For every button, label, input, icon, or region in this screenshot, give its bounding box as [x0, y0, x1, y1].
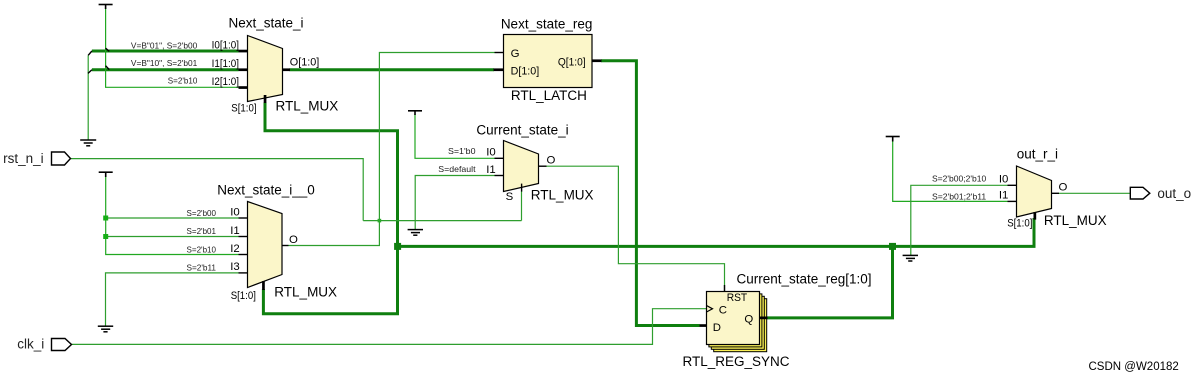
svg-text:S=1'b0: S=1'b0	[448, 146, 476, 156]
svg-text:I1[1:0]: I1[1:0]	[212, 58, 239, 70]
svg-text:I2: I2	[230, 243, 240, 255]
svg-text:Next_state_i__0: Next_state_i__0	[217, 183, 315, 198]
svg-text:D[1:0]: D[1:0]	[511, 66, 540, 78]
svg-text:V=B"10", S=2'b01: V=B"10", S=2'b01	[131, 58, 198, 68]
svg-text:O: O	[1059, 182, 1068, 194]
svg-text:clk_i: clk_i	[17, 337, 44, 352]
svg-text:I3: I3	[230, 261, 240, 273]
svg-text:S=2'b01;2'b11: S=2'b01;2'b11	[932, 192, 986, 202]
svg-text:Next_state_i: Next_state_i	[228, 16, 303, 31]
svg-text:rst_n_i: rst_n_i	[3, 151, 44, 166]
svg-text:RTL_MUX: RTL_MUX	[274, 285, 337, 300]
svg-text:RTL_REG_SYNC: RTL_REG_SYNC	[683, 354, 790, 369]
svg-text:Next_state_reg: Next_state_reg	[501, 17, 593, 32]
svg-text:I0[1:0]: I0[1:0]	[212, 39, 239, 51]
svg-text:S=2'b01: S=2'b01	[187, 226, 217, 236]
svg-text:I0: I0	[999, 174, 1009, 186]
svg-text:S[1:0]: S[1:0]	[231, 290, 256, 302]
svg-text:I1: I1	[999, 190, 1009, 202]
svg-text:S=2'b10: S=2'b10	[168, 76, 198, 86]
svg-text:D: D	[713, 322, 721, 334]
svg-text:S[1:0]: S[1:0]	[231, 103, 256, 115]
svg-text:Current_state_i: Current_state_i	[476, 123, 568, 138]
svg-text:CSDN @W20182: CSDN @W20182	[1089, 361, 1179, 373]
svg-text:C: C	[719, 305, 727, 317]
svg-text:I2[1:0]: I2[1:0]	[212, 76, 239, 88]
svg-text:RTL_LATCH: RTL_LATCH	[511, 88, 587, 103]
svg-text:S=2'b00;2'b10: S=2'b00;2'b10	[932, 174, 986, 184]
svg-text:S: S	[506, 191, 514, 203]
svg-text:I1: I1	[486, 164, 496, 176]
svg-text:RST: RST	[727, 292, 748, 304]
svg-text:RTL_MUX: RTL_MUX	[276, 99, 339, 114]
svg-text:Q[1:0]: Q[1:0]	[558, 56, 586, 68]
svg-text:S=default: S=default	[438, 164, 476, 174]
svg-text:O[1:0]: O[1:0]	[290, 57, 320, 69]
svg-text:S=2'b11: S=2'b11	[187, 262, 217, 272]
svg-text:I0: I0	[486, 147, 496, 159]
svg-text:O: O	[547, 155, 556, 167]
svg-text:S=2'b00: S=2'b00	[187, 208, 217, 218]
svg-text:out_o: out_o	[1157, 186, 1191, 201]
svg-text:I1: I1	[230, 225, 240, 237]
svg-text:V=B"01", S=2'b00: V=B"01", S=2'b00	[131, 40, 198, 50]
svg-text:Q: Q	[744, 314, 753, 326]
svg-text:O: O	[289, 234, 298, 246]
svg-text:S=2'b10: S=2'b10	[187, 244, 217, 254]
svg-text:I0: I0	[230, 206, 240, 218]
svg-text:out_r_i: out_r_i	[1017, 147, 1058, 162]
svg-text:Current_state_reg[1:0]: Current_state_reg[1:0]	[736, 272, 871, 287]
svg-text:RTL_MUX: RTL_MUX	[1044, 213, 1107, 228]
svg-text:RTL_MUX: RTL_MUX	[531, 188, 594, 203]
svg-text:S[1:0]: S[1:0]	[1007, 218, 1032, 230]
svg-text:G: G	[511, 48, 520, 60]
